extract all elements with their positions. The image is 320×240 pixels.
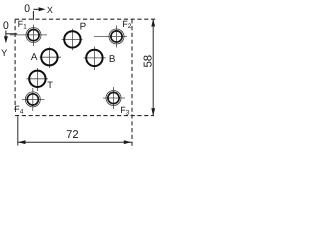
port T [27,68,49,91]
svg-text:B: B [109,54,116,65]
mounting hole F2 [94,26,127,48]
port A [40,47,61,68]
dimension line 72 [18,141,131,143]
X datum tick down to F1 [32,11,34,20]
svg-text:0: 0 [3,20,9,32]
dimension 72 extension line left [17,116,19,145]
svg-text:A: A [31,52,38,63]
X axis arrow [33,8,42,10]
svg-text:58: 58 [143,55,155,68]
svg-text:Y: Y [1,48,8,59]
svg-text:72: 72 [66,129,78,141]
svg-text:0: 0 [24,3,30,15]
port P [62,29,83,51]
mounting hole F3 [103,87,125,109]
mounting hole F4 [22,88,45,111]
mounting face outline (dashed rectangle) [15,19,157,148]
Y datum tick toward F1 [6,33,17,35]
Y axis arrow [5,31,7,41]
dimension line 58 [152,19,154,115]
port B [84,47,107,71]
svg-text:T: T [47,80,53,90]
svg-text:P: P [80,21,87,32]
mounting hole F1 [10,25,47,47]
svg-text:X: X [47,5,53,15]
